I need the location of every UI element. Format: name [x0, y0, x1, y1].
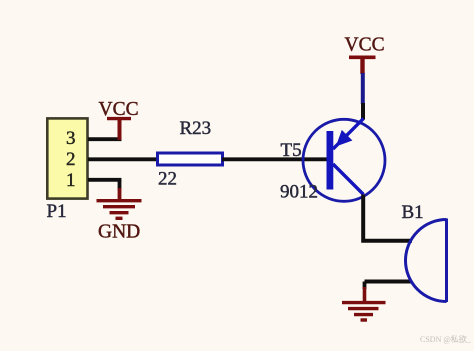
svg-text:VCC: VCC	[345, 35, 385, 56]
svg-text:9012: 9012	[280, 181, 318, 202]
svg-text:R23: R23	[180, 118, 212, 139]
svg-text:P1: P1	[47, 201, 67, 222]
svg-text:3: 3	[66, 128, 76, 149]
svg-text:1: 1	[66, 170, 76, 191]
svg-text:B1: B1	[402, 202, 424, 223]
svg-text:2: 2	[66, 149, 76, 170]
svg-text:VCC: VCC	[99, 99, 139, 120]
svg-text:22: 22	[158, 169, 177, 190]
svg-text:T5: T5	[281, 140, 302, 161]
svg-text:CSDN @私欲_: CSDN @私欲_	[420, 334, 472, 344]
svg-text:GND: GND	[98, 222, 140, 243]
